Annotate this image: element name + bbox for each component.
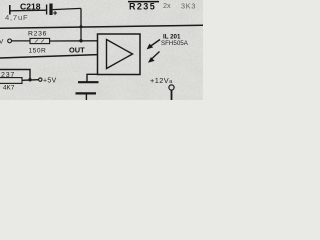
- wire: [80, 8, 82, 41]
- node junction OUT: [79, 39, 82, 42]
- op-amp triangle of IL201: [107, 40, 133, 69]
- photomodule U IL201 box: [98, 34, 141, 75]
- svg-text:R235: R235: [129, 1, 156, 11]
- wire rail middle (Vs pin): [0, 55, 98, 58]
- light arrow 1: [147, 40, 160, 50]
- wire rail top: [0, 25, 203, 28]
- svg-text:4K7: 4K7: [3, 85, 15, 92]
- svg-text:C218: C218: [20, 1, 41, 11]
- resistor R236: [30, 38, 50, 43]
- wire: [53, 8, 81, 9]
- svg-text:4,7uF: 4,7uF: [5, 13, 28, 22]
- svg-text:2x: 2x: [163, 1, 171, 10]
- svg-text:237: 237: [1, 72, 15, 79]
- wire gnd stub: [87, 74, 98, 81]
- paper background: [0, 0, 203, 100]
- svg-text:R236: R236: [28, 30, 47, 37]
- wire: [22, 79, 39, 82]
- svg-text:+5V: +5V: [43, 78, 57, 85]
- wire: [12, 40, 31, 42]
- resistor R237: [0, 78, 22, 84]
- wire: [10, 9, 46, 12]
- node junction on rail: [80, 25, 83, 28]
- light arrow 2: [148, 52, 160, 63]
- wire rail lower left: [0, 70, 30, 80]
- wire: [50, 40, 98, 42]
- node junction: [28, 78, 31, 81]
- svg-text:OUT: OUT: [69, 45, 85, 54]
- svg-text:SFH505A: SFH505A: [161, 40, 189, 47]
- wire: [171, 90, 173, 100]
- wire: [85, 94, 87, 100]
- svg-text:3K3: 3K3: [181, 1, 196, 10]
- resistor R235 label: [128, 1, 159, 3]
- ground bar lower: [76, 92, 97, 94]
- capacitor C218: [47, 4, 57, 16]
- ground bar upper: [78, 81, 99, 83]
- svg-text:150R: 150R: [29, 48, 47, 55]
- terminal tick top-left: [9, 5, 11, 15]
- node +5V terminal: [39, 78, 42, 81]
